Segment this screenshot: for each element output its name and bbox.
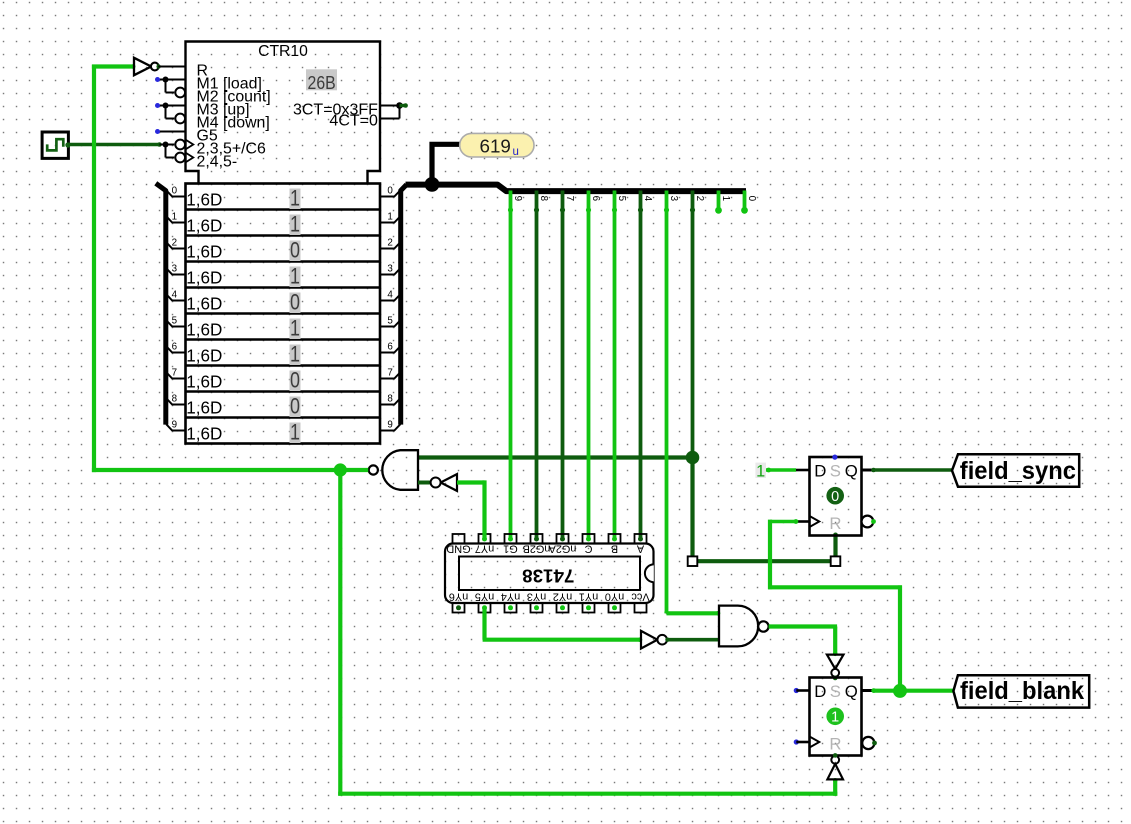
splitter S1 taps	[166, 190, 185, 430]
probe value 619u	[460, 133, 534, 158]
node reset net junction	[334, 463, 347, 476]
splitter S1 spine	[156, 183, 166, 424]
svg-text:R: R	[829, 514, 841, 533]
wire FF2 Q to field_blank	[871, 688, 954, 693]
wire U5 out	[665, 638, 719, 642]
pin FF2 D open	[794, 688, 810, 693]
pin FF1 S open	[832, 455, 837, 460]
node M3 tie	[155, 103, 186, 119]
chip U3 74138 body	[445, 544, 654, 604]
node open square B	[831, 556, 841, 566]
pin C6 bubble and edge triangle	[175, 140, 193, 150]
nand gate G2	[719, 606, 769, 647]
svg-text:Q: Q	[845, 462, 858, 481]
svg-text:0: 0	[831, 489, 839, 505]
svg-text:B: B	[611, 543, 618, 555]
svg-text:nY6: nY6	[449, 590, 468, 602]
pin FF1 stubs	[796, 470, 874, 522]
splitter S3 bit labels	[512, 196, 757, 202]
chip U3 pin labels	[446, 543, 649, 603]
register row values	[290, 187, 301, 445]
register array block	[186, 184, 381, 444]
counter value 26B	[306, 69, 337, 93]
wire bit2 vertical	[690, 455, 694, 556]
chip U3 pin pads	[453, 534, 647, 613]
wire bit2 horizontal	[693, 559, 836, 563]
wire constant to FF1 D	[766, 468, 796, 473]
svg-text:S: S	[830, 682, 841, 701]
svg-text:nY7: nY7	[475, 543, 494, 555]
svg-text:9: 9	[512, 196, 523, 201]
svg-text:Vcc: Vcc	[631, 590, 650, 602]
svg-text:nY2: nY2	[553, 590, 572, 602]
svg-text:1,6D: 1,6D	[186, 373, 222, 392]
wire G1 output	[340, 468, 368, 472]
wire G2 output	[769, 627, 838, 657]
node M1 tie	[155, 77, 186, 93]
svg-text:1,6D: 1,6D	[186, 399, 222, 418]
svg-text:A: A	[636, 543, 644, 555]
svg-text:8: 8	[387, 394, 393, 405]
svg-text:nY3: nY3	[527, 590, 546, 602]
svg-text:4CT=0: 4CT=0	[329, 112, 378, 129]
svg-text:1: 1	[290, 265, 300, 289]
splitter S2 bit labels	[387, 186, 393, 431]
splitter S1 bit labels	[172, 186, 178, 431]
nand gate G1 (rotated)	[369, 450, 418, 490]
clock input CLK1	[42, 132, 70, 158]
svg-text:0: 0	[290, 239, 300, 263]
svg-text:2: 2	[694, 196, 705, 201]
svg-text:1: 1	[290, 421, 300, 445]
svg-text:1: 1	[172, 212, 177, 223]
svg-text:1: 1	[720, 196, 731, 201]
svg-text:1,6D: 1,6D	[186, 425, 222, 444]
bus wire to fanout	[406, 185, 747, 192]
wire G1 input A	[418, 455, 693, 459]
svg-text:nY5: nY5	[475, 590, 494, 602]
svg-text:S: S	[830, 462, 841, 481]
svg-text:1: 1	[290, 213, 300, 237]
svg-text:0: 0	[290, 291, 300, 315]
svg-text:5: 5	[172, 316, 178, 327]
svg-text:1: 1	[290, 343, 300, 367]
svg-text:D: D	[814, 682, 826, 701]
svg-text:1,6D: 1,6D	[186, 269, 222, 288]
svg-text:7: 7	[172, 368, 177, 379]
node bit1 open end	[715, 207, 722, 214]
svg-text:0: 0	[290, 369, 300, 393]
node clock junction	[160, 142, 175, 158]
svg-text:4: 4	[642, 196, 653, 202]
bus wire to probe	[432, 144, 460, 184]
wire reset feedback to nand	[92, 468, 340, 472]
svg-text:GND: GND	[446, 543, 470, 555]
svg-text:nY1: nY1	[579, 590, 598, 602]
splitter S3 fanout wires	[508, 191, 747, 614]
svg-text:field_sync: field_sync	[960, 457, 1076, 485]
node bit2 junction	[686, 451, 700, 465]
node 3CT to 4CT	[380, 102, 408, 118]
wire bit3 to G2	[667, 611, 721, 616]
svg-text:u: u	[513, 146, 519, 158]
wire nY5 run	[483, 608, 643, 642]
node FF2 Q junction	[893, 684, 907, 698]
wire FF1 reset stub	[833, 533, 838, 562]
svg-text:Q: Q	[845, 682, 858, 701]
pin C- bubble and edge triangle	[175, 153, 193, 163]
splitter S2 taps	[380, 190, 400, 430]
svg-text:2,4,5-: 2,4,5-	[197, 154, 238, 171]
pin G5 open	[155, 129, 186, 134]
svg-text:D: D	[814, 462, 826, 481]
pin M4 bubble	[175, 114, 185, 124]
node bus junction	[425, 177, 440, 192]
wire G1 input B stub	[418, 481, 431, 485]
flip-flop FF2	[810, 678, 875, 756]
splitter S2 spine	[401, 185, 407, 425]
wire to FF2 set	[833, 778, 838, 796]
svg-text:5: 5	[616, 196, 627, 202]
svg-text:C: C	[584, 543, 592, 555]
svg-text:1: 1	[831, 710, 839, 726]
output tag field_sync	[952, 454, 1079, 487]
svg-text:R: R	[829, 734, 841, 753]
svg-text:619: 619	[480, 136, 511, 157]
wire reset feedback vertical	[92, 65, 96, 472]
svg-text:8: 8	[538, 196, 549, 202]
pin FF2 Q stub	[862, 689, 874, 692]
svg-text:3: 3	[172, 264, 178, 275]
svg-text:nG2B: nG2B	[523, 543, 551, 555]
svg-text:74138: 74138	[522, 566, 574, 587]
svg-text:1,6D: 1,6D	[186, 321, 222, 340]
svg-text:2: 2	[387, 238, 392, 249]
wire nY7 to U4	[457, 480, 485, 539]
svg-text:1,6D: 1,6D	[186, 295, 222, 314]
svg-text:CTR10: CTR10	[258, 43, 308, 60]
svg-text:1: 1	[387, 212, 392, 223]
wire clock net	[68, 142, 162, 147]
flip-flop FF1	[810, 457, 874, 536]
node bit0 open end	[741, 207, 748, 214]
svg-text:0: 0	[172, 186, 178, 197]
svg-text:nY4: nY4	[501, 590, 520, 602]
svg-text:1: 1	[290, 187, 300, 211]
output tag field_blank	[953, 675, 1089, 707]
svg-text:nY0: nY0	[605, 590, 624, 602]
wire reset net bottom	[338, 468, 342, 796]
svg-text:3: 3	[668, 196, 679, 202]
svg-text:2: 2	[172, 238, 177, 249]
svg-text:7: 7	[387, 368, 392, 379]
svg-text:4: 4	[387, 290, 393, 301]
constant ONE	[755, 463, 766, 481]
inverter U4	[431, 474, 457, 491]
svg-text:9: 9	[387, 420, 392, 431]
svg-text:1: 1	[290, 317, 300, 341]
inverter U5	[641, 631, 667, 649]
svg-text:26B: 26B	[308, 72, 336, 94]
wire FF2Q to FF1 clock	[768, 519, 902, 691]
svg-text:nG2A: nG2A	[548, 543, 577, 555]
svg-text:1,6D: 1,6D	[186, 347, 222, 366]
inverter U6 (into FF2 set)	[827, 655, 844, 681]
svg-text:8: 8	[172, 394, 178, 405]
svg-text:4: 4	[172, 290, 178, 301]
inverter U2 (reset)	[134, 58, 186, 75]
svg-text:6: 6	[590, 196, 601, 202]
pin FF2 nQ dot	[872, 741, 877, 746]
svg-text:0: 0	[746, 196, 757, 202]
wire FF1 Q to field_sync	[871, 468, 952, 473]
chip U3 pad dots	[456, 537, 643, 611]
svg-text:6: 6	[387, 342, 393, 353]
svg-text:0: 0	[387, 186, 393, 197]
svg-text:G1: G1	[503, 543, 518, 555]
inverter U7 (into FF2 reset)	[827, 753, 843, 779]
svg-text:field_blank: field_blank	[960, 678, 1084, 706]
svg-text:3: 3	[387, 264, 393, 275]
node inverter U2 input	[131, 64, 136, 69]
register row labels 1,6D	[186, 191, 222, 444]
svg-text:1,6D: 1,6D	[186, 217, 222, 236]
node open square A	[688, 556, 698, 566]
pin FF2 C open	[794, 739, 810, 744]
wire reset feedback top	[92, 64, 134, 68]
pin M2 bubble	[175, 88, 185, 98]
svg-text:0: 0	[290, 395, 300, 419]
svg-text:6: 6	[172, 342, 178, 353]
counter U1 CTR10	[186, 42, 381, 184]
svg-text:1: 1	[756, 463, 765, 481]
pin FF1 nQ dot	[871, 519, 876, 524]
svg-text:1,6D: 1,6D	[186, 191, 222, 210]
svg-text:9: 9	[172, 420, 177, 431]
wire bottom horizontal	[338, 792, 837, 796]
svg-text:5: 5	[387, 316, 393, 327]
svg-text:7: 7	[564, 196, 575, 201]
svg-text:1,6D: 1,6D	[186, 243, 222, 262]
